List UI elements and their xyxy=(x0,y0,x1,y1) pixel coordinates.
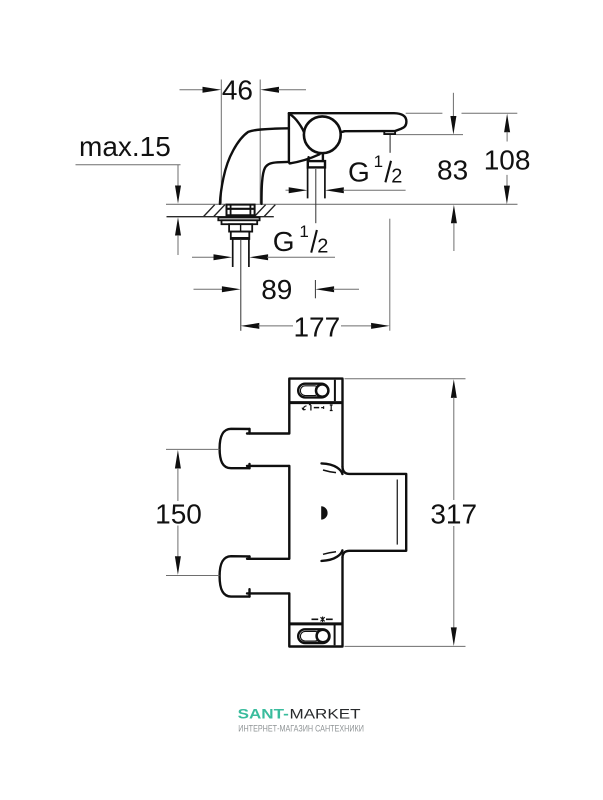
max.15 lower arrow tail xyxy=(177,235,179,255)
top icon row: curved arrow xyxy=(302,406,307,410)
dim 108 top arrowhead xyxy=(504,114,510,133)
upper inlet nut right edge xyxy=(248,429,250,468)
flange B xyxy=(222,220,258,224)
lower inlet pipe xyxy=(247,559,289,594)
valve head bottom sloped edge xyxy=(290,154,320,163)
center safety mark xyxy=(321,506,327,519)
bottom cap inner vertical xyxy=(334,625,336,645)
max.15 leader vertical xyxy=(177,165,179,188)
fitting inner verticals xyxy=(231,205,251,217)
lower inlet union nut xyxy=(220,556,250,596)
dim 46 left arrowhead xyxy=(203,87,222,93)
svg-text:G: G xyxy=(273,226,295,257)
spout top reference line xyxy=(406,112,518,114)
top cap knob circle xyxy=(316,384,328,396)
G1/2 collar xyxy=(308,161,325,167)
nut xyxy=(229,224,252,231)
plate inner vertical line xyxy=(396,480,398,545)
hose centerline extension at 89 xyxy=(314,280,316,298)
dim 177 left segment xyxy=(258,325,293,327)
dim 177 right arrowhead xyxy=(371,323,390,329)
dim 89 right tail xyxy=(333,288,359,290)
top icon row: dash xyxy=(314,407,319,409)
step below nut xyxy=(231,232,250,239)
lower inlet nut right edge xyxy=(248,556,250,596)
deck hatch left 2 xyxy=(214,205,225,217)
aerator short extension line xyxy=(389,135,391,153)
faucet tower left outer curve xyxy=(220,128,289,204)
escutcheon curl bottom small xyxy=(323,552,336,555)
top cap pill window xyxy=(298,384,328,398)
dim 150 top arrowhead xyxy=(175,450,181,469)
top cap separator xyxy=(289,401,343,404)
dim 108 bottom arrowhead xyxy=(504,186,510,205)
dim 46 extension line right xyxy=(259,80,261,204)
svg-text:83: 83 xyxy=(437,155,468,186)
dim 83 top arrow shaft xyxy=(452,93,454,117)
svg-text:1: 1 xyxy=(299,222,308,241)
svg-text:SANT-: SANT- xyxy=(238,705,290,721)
hose pipe centerline xyxy=(315,169,317,223)
svg-text:317: 317 xyxy=(430,498,477,529)
fitting thread bands xyxy=(227,209,255,216)
dim 89 right arrowhead xyxy=(315,286,334,292)
deck hatch left 1 xyxy=(204,205,215,217)
dim 150 lower extension line xyxy=(166,575,219,577)
supply pipe walls xyxy=(233,239,249,267)
top icon row: bar and dot xyxy=(309,405,311,411)
svg-text:108: 108 xyxy=(484,144,531,175)
dim 317 lower shaft xyxy=(453,526,455,628)
dim 317 upper shaft xyxy=(453,397,455,500)
svg-text:G: G xyxy=(348,157,370,188)
G1/2 upper arrow left xyxy=(286,189,291,191)
flange A xyxy=(218,218,259,221)
svg-text:2: 2 xyxy=(317,236,328,258)
upper inlet union nut xyxy=(220,429,250,468)
svg-text:ИНТЕРНЕТ-МАГАЗИН САНТЕХНИКИ: ИНТЕРНЕТ-МАГАЗИН САНТЕХНИКИ xyxy=(238,724,364,734)
bottom cap knob circle xyxy=(317,630,330,643)
bottom icon row: dash star dash xyxy=(312,618,333,620)
max.15 up arrowhead at deck bottom xyxy=(175,217,181,235)
nut facet line xyxy=(240,224,242,231)
valve head left edge xyxy=(289,113,291,163)
deck hatch right 2 xyxy=(264,205,275,217)
deck top line xyxy=(166,203,518,205)
svg-text:1: 1 xyxy=(374,152,383,171)
dim 83 bottom arrow shaft xyxy=(453,223,455,251)
escutcheon curl bottom xyxy=(322,550,343,561)
spout outlet extension line xyxy=(389,219,391,331)
dim 150 bottom arrowhead xyxy=(175,556,181,575)
dim 150 lower shaft xyxy=(177,526,179,558)
dim 177 left arrowhead xyxy=(241,323,260,329)
svg-text:46: 46 xyxy=(222,75,253,106)
G1/2 lower arrow left xyxy=(192,256,215,258)
wall plate outline xyxy=(343,467,407,557)
control circle xyxy=(304,116,341,153)
step dark bottom xyxy=(231,237,250,239)
valve head top-left fillet to circle xyxy=(289,114,304,133)
G1/2 upper arrow right with leader xyxy=(325,187,344,193)
aerator bottom reference line xyxy=(396,134,463,136)
bottom cap pill inner line xyxy=(300,631,319,641)
supply pipe centerline xyxy=(240,239,242,331)
dim 89 left arrowhead xyxy=(222,286,241,292)
dim 46 dimension line right tail xyxy=(278,89,306,91)
hose pipe walls xyxy=(308,168,325,198)
dim 150 upper extension line xyxy=(166,448,219,450)
body outline xyxy=(289,379,342,647)
svg-text:MARKET: MARKET xyxy=(290,705,362,721)
deck bottom line xyxy=(167,216,274,218)
dim 46 dimension line left tail xyxy=(180,89,204,91)
lever handle top edge and spout rounded end xyxy=(289,113,407,131)
fillet right of circle under lever xyxy=(339,131,345,133)
dim 317 upper extension line xyxy=(345,378,466,380)
escutcheon curl top xyxy=(322,463,343,474)
deck hatch right 1 xyxy=(255,205,266,217)
dim 317 bottom arrowhead xyxy=(451,627,457,646)
dim 317 top arrowhead xyxy=(451,379,457,398)
dim 46 right arrowhead xyxy=(260,87,279,93)
max.15 leader underline xyxy=(76,164,181,166)
neck below circle xyxy=(309,154,323,161)
aerator box under spout xyxy=(384,131,395,134)
bottom cap separator xyxy=(289,622,343,625)
dim 83 top arrowhead xyxy=(450,116,456,135)
escutcheon curl top small xyxy=(323,470,336,473)
top cap inner vertical xyxy=(334,380,336,401)
svg-text:max.15: max.15 xyxy=(79,131,171,162)
dim 108 lower shaft xyxy=(506,175,508,187)
upper inlet pipe xyxy=(247,434,289,466)
under-deck fitting body xyxy=(227,205,255,217)
svg-text:177: 177 xyxy=(293,312,340,343)
svg-text:2: 2 xyxy=(391,165,402,187)
svg-text:150: 150 xyxy=(155,499,202,530)
dim 150 upper shaft xyxy=(177,468,179,501)
dim 46 extension line left xyxy=(220,80,222,204)
dim 317 lower extension line xyxy=(345,645,466,647)
top icon row: small arrow dot xyxy=(321,406,323,409)
dim 89 left tail xyxy=(194,288,223,290)
dim 177 right segment xyxy=(341,325,371,327)
max.15 down arrowhead at deck top xyxy=(175,186,181,204)
dim 83 bottom arrowhead xyxy=(451,205,457,224)
bottom cap pill window xyxy=(298,629,329,643)
top icon row: temp mark xyxy=(330,405,333,411)
dim 108 upper shaft xyxy=(506,132,508,142)
top cap pill inner line xyxy=(300,386,319,396)
svg-text:89: 89 xyxy=(261,274,292,305)
G1/2 lower arrow right with leader underline xyxy=(249,254,268,260)
faucet tower inner right curve xyxy=(262,162,289,204)
